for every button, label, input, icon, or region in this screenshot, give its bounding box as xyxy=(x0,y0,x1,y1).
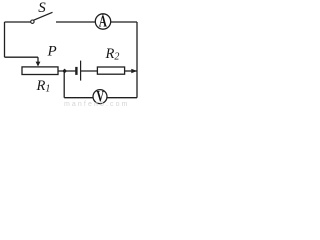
svg-text:S: S xyxy=(38,0,46,16)
svg-text:manfen5.com: manfen5.com xyxy=(64,101,130,108)
svg-text:P: P xyxy=(47,43,57,59)
